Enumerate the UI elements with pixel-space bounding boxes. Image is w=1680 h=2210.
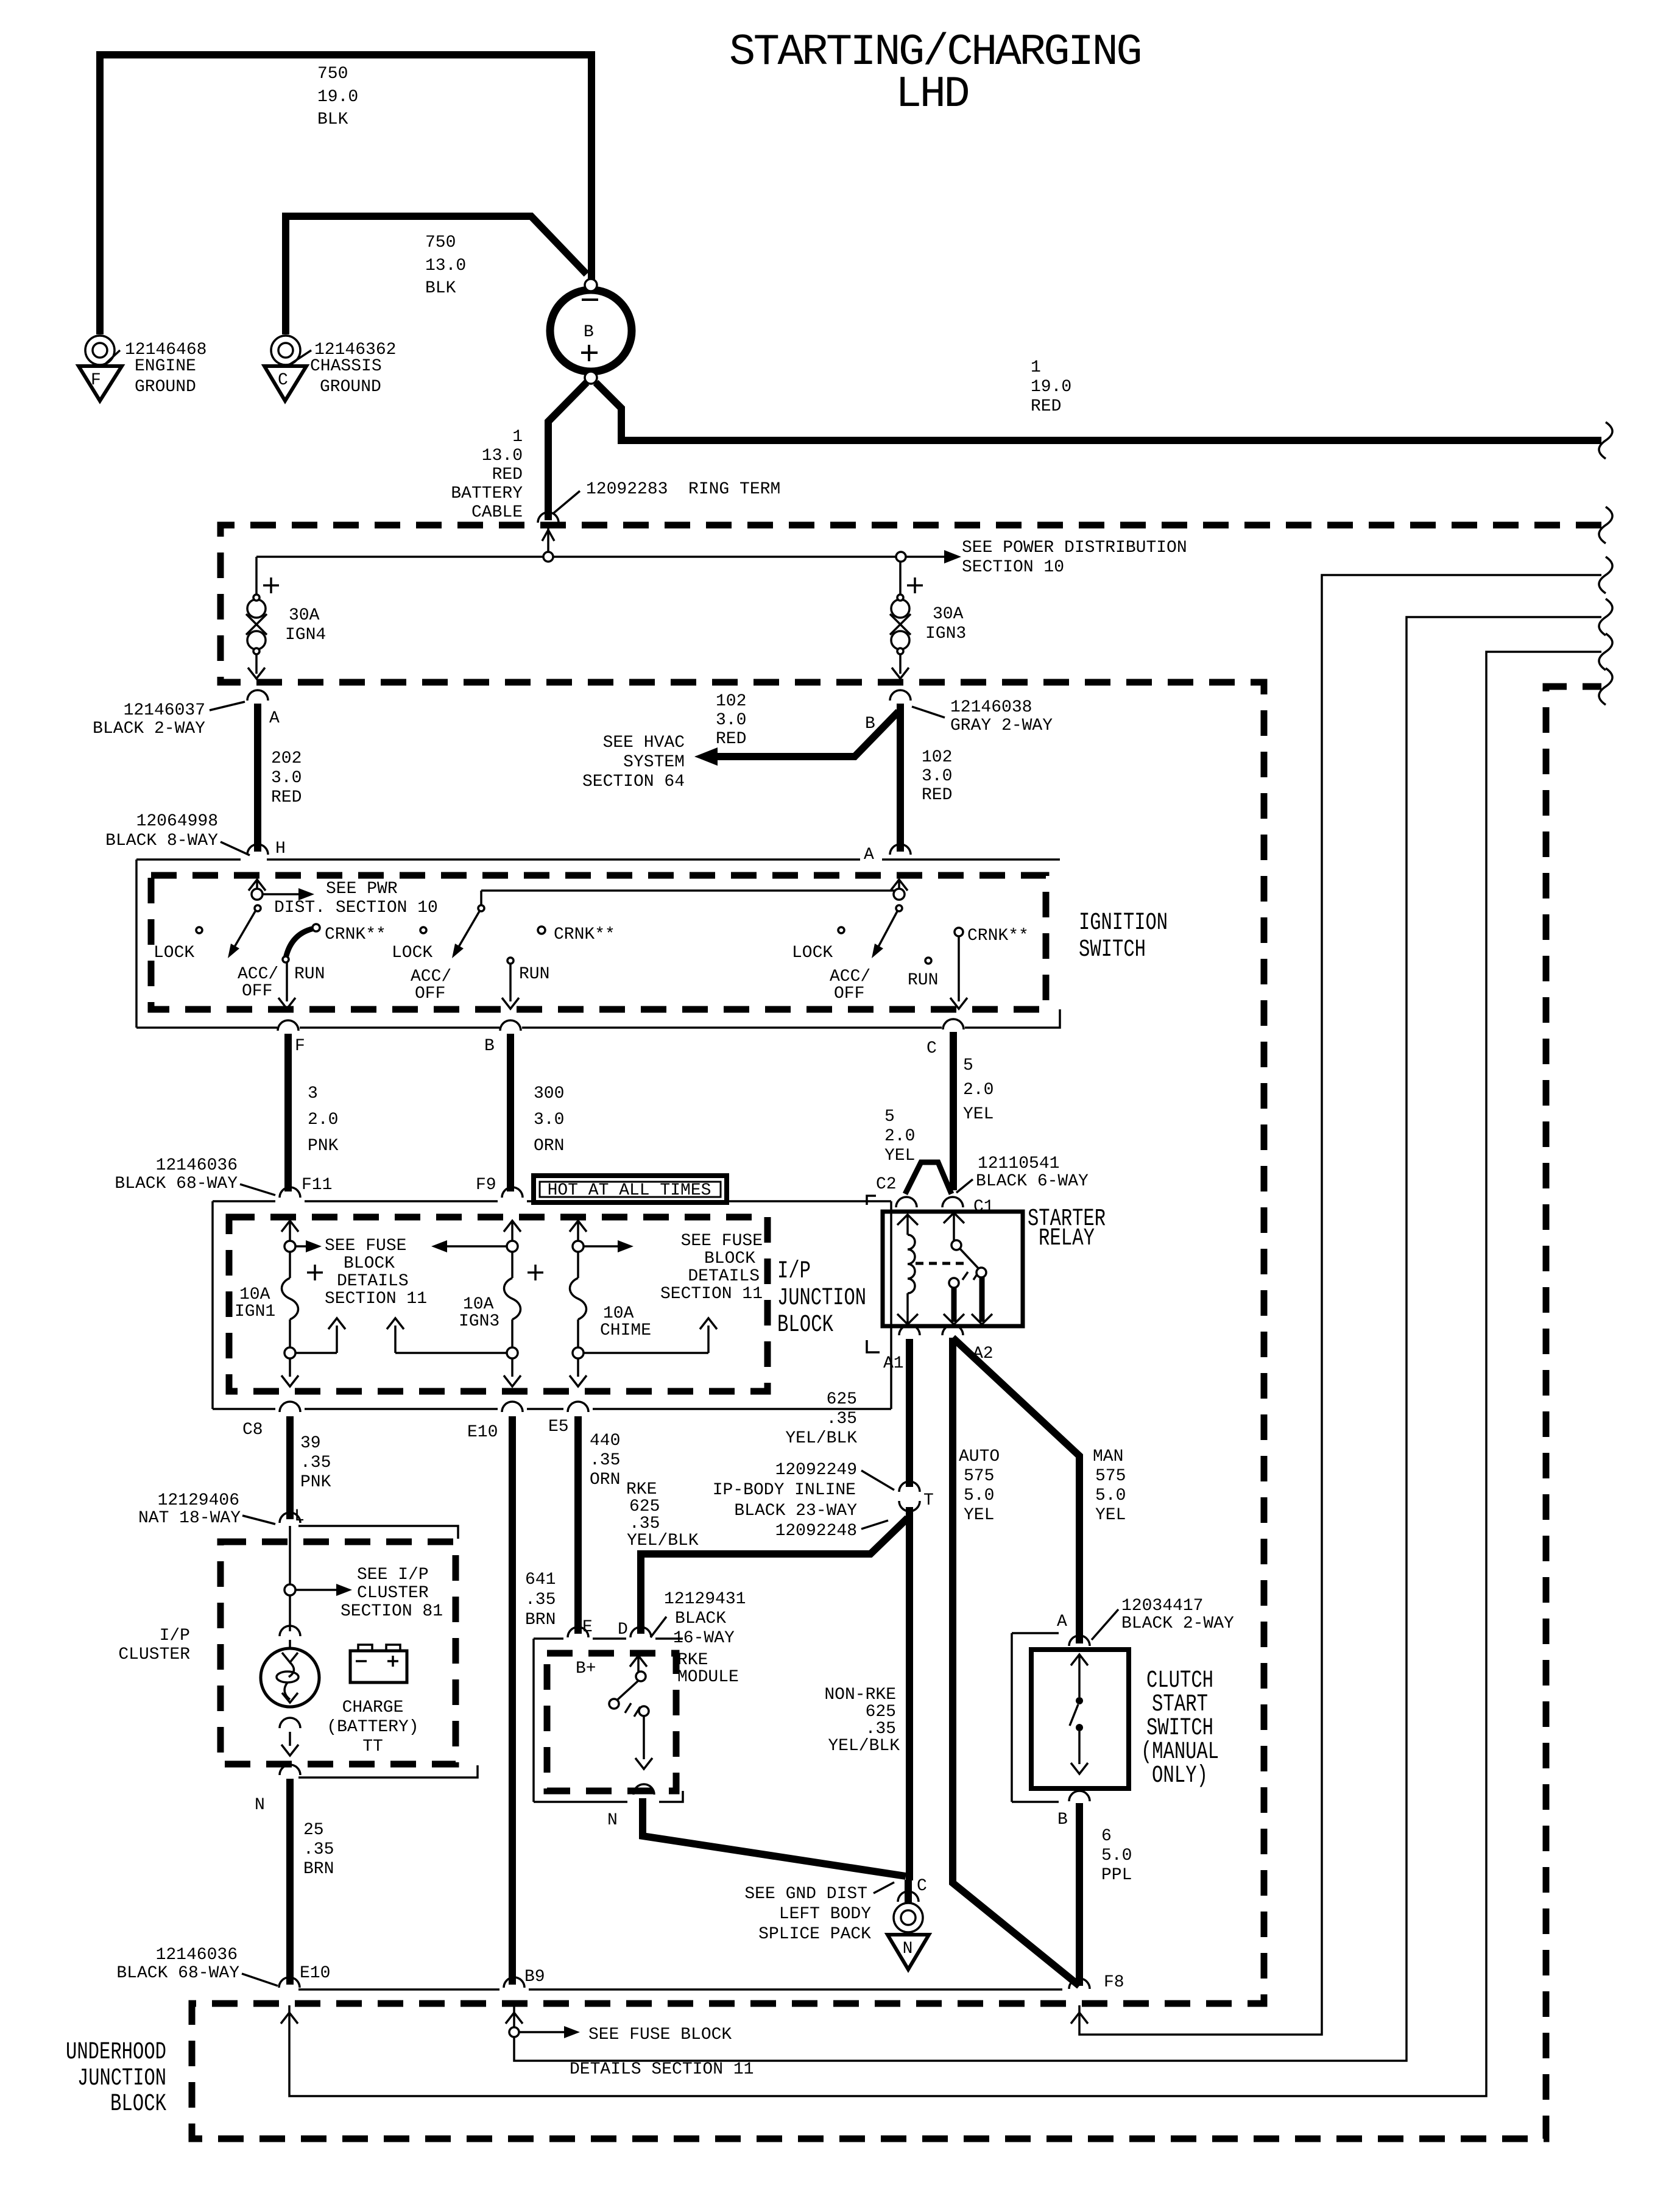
- svg-text:.35: .35: [525, 1590, 556, 1609]
- svg-text:BRN: BRN: [303, 1860, 334, 1879]
- svg-text:6: 6: [1101, 1827, 1112, 1846]
- svg-text:12129431: 12129431: [664, 1590, 746, 1609]
- svg-text:625: 625: [629, 1497, 660, 1516]
- svg-text:D: D: [618, 1620, 628, 1639]
- svg-text:T: T: [923, 1491, 934, 1510]
- svg-text:SYSTEM: SYSTEM: [623, 753, 685, 772]
- svg-text:3.0: 3.0: [922, 767, 952, 786]
- svg-text:RKE: RKE: [626, 1480, 657, 1499]
- svg-text:440: 440: [590, 1432, 620, 1450]
- svg-text:AUTO: AUTO: [959, 1447, 1000, 1466]
- svg-text:12146038: 12146038: [950, 698, 1032, 717]
- svg-text:DETAILS: DETAILS: [688, 1267, 760, 1286]
- svg-text:A: A: [269, 709, 280, 728]
- svg-text:BLOCK: BLOCK: [110, 2091, 166, 2118]
- svg-text:RUN: RUN: [908, 971, 938, 990]
- svg-text:12129406: 12129406: [158, 1491, 239, 1510]
- svg-text:C: C: [917, 1877, 927, 1896]
- svg-text:CABLE: CABLE: [471, 503, 523, 522]
- svg-text:RELAY: RELAY: [1039, 1225, 1095, 1252]
- svg-text:YEL: YEL: [963, 1105, 994, 1124]
- svg-text:N: N: [903, 1940, 913, 1958]
- svg-text:IGN4: IGN4: [285, 626, 326, 644]
- svg-text:2.0: 2.0: [308, 1110, 338, 1129]
- svg-text:ENGINE: ENGINE: [135, 357, 196, 376]
- svg-text:(BATTERY): (BATTERY): [326, 1718, 418, 1737]
- svg-text:YEL: YEL: [1095, 1506, 1126, 1525]
- svg-text:CHIME: CHIME: [600, 1321, 651, 1340]
- svg-text:IGN1: IGN1: [235, 1302, 275, 1321]
- svg-text:I/P: I/P: [160, 1626, 190, 1645]
- svg-text:575: 575: [1095, 1467, 1126, 1486]
- svg-text:A2: A2: [973, 1344, 994, 1363]
- svg-text:102: 102: [716, 692, 746, 711]
- svg-text:1: 1: [1031, 358, 1041, 377]
- svg-text:ONLY): ONLY): [1152, 1762, 1208, 1790]
- svg-text:2.0: 2.0: [884, 1127, 915, 1146]
- svg-text:IGNITION: IGNITION: [1079, 909, 1168, 937]
- svg-text:C: C: [926, 1039, 937, 1058]
- svg-text:3: 3: [308, 1084, 318, 1103]
- svg-text:I/P: I/P: [777, 1258, 811, 1285]
- svg-text:2.0: 2.0: [963, 1081, 994, 1100]
- svg-text:BLACK 68-WAY: BLACK 68-WAY: [116, 1964, 239, 1983]
- svg-text:625: 625: [827, 1390, 857, 1409]
- svg-text:N: N: [255, 1796, 265, 1815]
- svg-text:SECTION 64: SECTION 64: [582, 772, 685, 791]
- svg-text:RED: RED: [1031, 397, 1061, 416]
- svg-text:C8: C8: [242, 1421, 263, 1439]
- svg-text:JUNCTION: JUNCTION: [77, 2065, 166, 2092]
- svg-text:BLOCK: BLOCK: [344, 1254, 395, 1273]
- svg-text:641: 641: [525, 1570, 556, 1589]
- svg-text:HOT AT ALL TIMES: HOT AT ALL TIMES: [548, 1181, 711, 1200]
- svg-text:CRNK**: CRNK**: [967, 927, 1029, 945]
- svg-text:A1: A1: [883, 1354, 904, 1373]
- svg-text:300: 300: [534, 1084, 564, 1103]
- svg-text:SEE PWR: SEE PWR: [326, 880, 398, 898]
- svg-text:IGN3: IGN3: [459, 1312, 499, 1331]
- svg-text:IGN3: IGN3: [925, 624, 966, 643]
- svg-text:RED: RED: [271, 788, 302, 807]
- svg-text:SEE FUSE: SEE FUSE: [681, 1232, 763, 1251]
- svg-text:MAN: MAN: [1093, 1447, 1123, 1466]
- svg-text:30A: 30A: [933, 605, 964, 624]
- svg-text:12064998: 12064998: [136, 812, 218, 831]
- svg-text:B+: B+: [576, 1659, 596, 1678]
- svg-text:5.0: 5.0: [1101, 1846, 1132, 1865]
- svg-text:102: 102: [922, 748, 952, 767]
- svg-text:C1: C1: [973, 1198, 994, 1216]
- svg-text:PNK: PNK: [308, 1137, 339, 1156]
- svg-text:F8: F8: [1104, 1973, 1124, 1992]
- svg-text:750: 750: [317, 65, 348, 83]
- svg-text:UNDERHOOD: UNDERHOOD: [66, 2039, 166, 2066]
- svg-text:DETAILS SECTION 11: DETAILS SECTION 11: [570, 2060, 754, 2079]
- svg-text:BLK: BLK: [425, 279, 456, 298]
- svg-text:IP-BODY INLINE: IP-BODY INLINE: [713, 1481, 856, 1500]
- svg-text:B: B: [584, 323, 594, 342]
- svg-text:N: N: [607, 1811, 618, 1830]
- svg-text:GROUND: GROUND: [320, 378, 381, 397]
- svg-text:12092283 RING TERM: 12092283 RING TERM: [586, 480, 780, 499]
- svg-text:YEL: YEL: [964, 1506, 994, 1525]
- svg-text:YEL/BLK: YEL/BLK: [828, 1737, 900, 1756]
- svg-text:SECTION 11: SECTION 11: [660, 1285, 763, 1304]
- svg-text:5.0: 5.0: [964, 1486, 994, 1505]
- svg-text:19.0: 19.0: [1031, 378, 1071, 397]
- svg-text:DETAILS: DETAILS: [337, 1272, 409, 1291]
- svg-text:ORN: ORN: [534, 1137, 564, 1156]
- svg-text:BRN: BRN: [525, 1611, 556, 1629]
- svg-text:12110541: 12110541: [978, 1154, 1059, 1173]
- svg-text:B: B: [1057, 1810, 1068, 1829]
- svg-text:A: A: [864, 846, 874, 864]
- svg-text:RED: RED: [716, 730, 746, 749]
- svg-text:.35: .35: [866, 1720, 896, 1739]
- svg-text:F11: F11: [302, 1176, 332, 1195]
- svg-text:NON-RKE: NON-RKE: [824, 1686, 896, 1704]
- svg-text:CLUSTER: CLUSTER: [357, 1584, 429, 1603]
- svg-text:TT: TT: [362, 1737, 383, 1756]
- svg-text:10A: 10A: [603, 1304, 634, 1323]
- svg-text:BLACK 23-WAY: BLACK 23-WAY: [734, 1502, 857, 1520]
- svg-text:E10: E10: [300, 1964, 330, 1983]
- svg-text:MODULE: MODULE: [677, 1668, 739, 1687]
- svg-text:F9: F9: [476, 1176, 496, 1195]
- svg-text:CRNK**: CRNK**: [325, 925, 386, 944]
- svg-text:LOCK: LOCK: [392, 944, 432, 962]
- svg-text:BLACK 2-WAY: BLACK 2-WAY: [93, 719, 205, 738]
- svg-text:C2: C2: [876, 1175, 897, 1194]
- svg-text:BLACK 2-WAY: BLACK 2-WAY: [1121, 1614, 1234, 1633]
- svg-text:DIST. SECTION 10: DIST. SECTION 10: [274, 898, 438, 917]
- svg-text:SEE I/P: SEE I/P: [357, 1566, 429, 1584]
- svg-text:LOCK: LOCK: [792, 944, 833, 962]
- svg-text:F: F: [295, 1037, 305, 1056]
- svg-text:RED: RED: [922, 786, 952, 805]
- svg-text:.35: .35: [827, 1410, 857, 1428]
- svg-text:16-WAY: 16-WAY: [673, 1629, 735, 1648]
- svg-text:RUN: RUN: [519, 965, 549, 984]
- svg-text:1: 1: [512, 428, 523, 447]
- svg-text:BLACK 68-WAY: BLACK 68-WAY: [115, 1174, 238, 1193]
- svg-text:625: 625: [866, 1703, 896, 1721]
- svg-text:13.0: 13.0: [482, 447, 523, 465]
- svg-text:12034417: 12034417: [1121, 1597, 1203, 1615]
- svg-text:CRNK**: CRNK**: [554, 925, 615, 944]
- svg-text:SECTION 81: SECTION 81: [341, 1602, 443, 1621]
- svg-text:19.0: 19.0: [317, 88, 358, 107]
- svg-text:BATTERY: BATTERY: [451, 484, 523, 503]
- svg-text:39: 39: [300, 1434, 321, 1453]
- svg-text:SEE POWER DISTRIBUTION: SEE POWER DISTRIBUTION: [962, 538, 1187, 557]
- svg-text:RUN: RUN: [294, 965, 325, 984]
- svg-text:OFF: OFF: [242, 982, 272, 1001]
- svg-text:5.0: 5.0: [1095, 1486, 1126, 1505]
- svg-text:5: 5: [963, 1056, 973, 1075]
- svg-text:3.0: 3.0: [271, 769, 302, 788]
- svg-text:L: L: [294, 1507, 305, 1526]
- svg-text:3.0: 3.0: [534, 1110, 564, 1129]
- svg-text:.35: .35: [629, 1514, 660, 1533]
- svg-text:BLACK 8-WAY: BLACK 8-WAY: [105, 831, 218, 850]
- svg-text:GROUND: GROUND: [135, 378, 196, 397]
- svg-text:.35: .35: [590, 1451, 620, 1470]
- svg-text:SEE GND DIST: SEE GND DIST: [744, 1885, 867, 1904]
- svg-text:25: 25: [303, 1821, 324, 1840]
- svg-text:OFF: OFF: [834, 984, 864, 1003]
- svg-text:YEL/BLK: YEL/BLK: [785, 1429, 857, 1448]
- svg-text:E5: E5: [548, 1417, 569, 1436]
- svg-text:12146036: 12146036: [156, 1946, 238, 1965]
- svg-text:YEL/BLK: YEL/BLK: [627, 1531, 699, 1550]
- svg-text:LEFT BODY: LEFT BODY: [779, 1905, 871, 1924]
- svg-text:B: B: [865, 715, 875, 733]
- svg-text:10A: 10A: [463, 1295, 494, 1314]
- svg-text:SPLICE PACK: SPLICE PACK: [758, 1925, 871, 1944]
- svg-text:CHARGE: CHARGE: [342, 1698, 404, 1717]
- svg-text:10A: 10A: [239, 1285, 270, 1304]
- svg-text:JUNCTION: JUNCTION: [777, 1285, 866, 1312]
- svg-text:NAT 18-WAY: NAT 18-WAY: [138, 1509, 241, 1528]
- svg-text:CHASSIS: CHASSIS: [310, 357, 382, 376]
- svg-text:RED: RED: [492, 465, 523, 484]
- svg-text:12146036: 12146036: [156, 1156, 238, 1175]
- svg-text:A: A: [1057, 1612, 1067, 1631]
- svg-text:ACC/: ACC/: [411, 967, 451, 986]
- svg-text:ORN: ORN: [590, 1470, 620, 1489]
- svg-text:E10: E10: [467, 1423, 498, 1442]
- svg-text:5: 5: [884, 1107, 895, 1126]
- svg-text:CLUSTER: CLUSTER: [118, 1645, 190, 1664]
- svg-text:LHD: LHD: [895, 69, 968, 119]
- svg-text:12092249: 12092249: [775, 1461, 857, 1480]
- svg-text:F: F: [91, 371, 101, 390]
- svg-text:RKE: RKE: [677, 1651, 708, 1670]
- svg-text:OFF: OFF: [415, 984, 445, 1003]
- svg-text:BLACK 6-WAY: BLACK 6-WAY: [976, 1172, 1089, 1191]
- svg-text:12092248: 12092248: [775, 1522, 857, 1541]
- svg-text:SEE FUSE BLOCK: SEE FUSE BLOCK: [588, 2025, 732, 2044]
- svg-text:BLOCK: BLOCK: [704, 1249, 755, 1268]
- svg-text:ACC/: ACC/: [238, 965, 278, 984]
- svg-text:SWITCH: SWITCH: [1079, 936, 1146, 964]
- svg-text:202: 202: [271, 749, 302, 768]
- svg-text:YEL: YEL: [884, 1146, 915, 1165]
- svg-text:12146037: 12146037: [124, 701, 205, 720]
- svg-text:PPL: PPL: [1101, 1866, 1132, 1885]
- svg-text:13.0: 13.0: [425, 256, 466, 275]
- svg-text:PNK: PNK: [300, 1473, 331, 1492]
- svg-text:SECTION 10: SECTION 10: [962, 558, 1064, 577]
- svg-text:E: E: [582, 1618, 593, 1637]
- svg-text:BLACK: BLACK: [675, 1609, 726, 1628]
- svg-text:H: H: [275, 839, 286, 858]
- svg-text:BLOCK: BLOCK: [777, 1312, 833, 1339]
- svg-text:B: B: [484, 1037, 495, 1056]
- svg-text:C: C: [278, 371, 288, 390]
- svg-text:SECTION 11: SECTION 11: [325, 1290, 427, 1308]
- svg-text:.35: .35: [303, 1840, 334, 1859]
- svg-text:SEE HVAC: SEE HVAC: [603, 733, 685, 752]
- svg-text:.35: .35: [300, 1453, 331, 1472]
- svg-text:LOCK: LOCK: [154, 944, 194, 962]
- svg-text:GRAY 2-WAY: GRAY 2-WAY: [950, 716, 1053, 735]
- svg-text:3.0: 3.0: [716, 711, 746, 730]
- svg-text:575: 575: [964, 1467, 994, 1486]
- svg-text:BLK: BLK: [317, 110, 348, 129]
- svg-text:B9: B9: [524, 1968, 545, 1986]
- svg-text:ACC/: ACC/: [830, 967, 870, 986]
- svg-text:750: 750: [425, 233, 456, 252]
- svg-text:SEE FUSE: SEE FUSE: [325, 1237, 406, 1255]
- svg-text:30A: 30A: [289, 606, 320, 625]
